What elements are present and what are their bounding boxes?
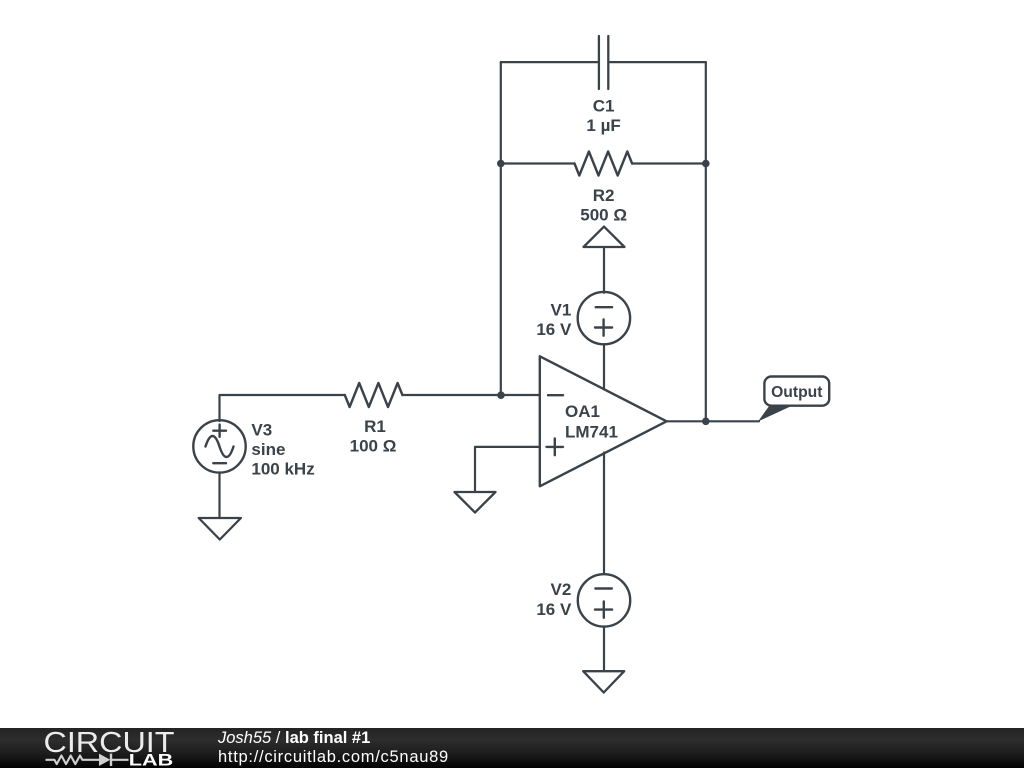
svg-text:C1: C1 [593, 97, 615, 116]
svg-text:LAB: LAB [129, 750, 173, 768]
svg-text:100 kHz: 100 kHz [251, 460, 314, 479]
op-amp OA1 [540, 356, 667, 486]
svg-text:16 V: 16 V [536, 600, 572, 619]
svg-text:R1: R1 [364, 417, 386, 436]
wire: C1 right lead [610, 61, 706, 63]
footer bar [0, 728, 1024, 768]
V3 minus sign [213, 462, 226, 464]
attribution line 1 [218, 729, 370, 748]
wire: V2 bottom to ground [603, 627, 605, 672]
op-amp minus input sign [548, 394, 563, 396]
svg-text:500 Ω: 500 Ω [580, 206, 627, 225]
V1 plus sign [595, 320, 612, 336]
Output flag tail [758, 406, 793, 422]
V1 minus sign [596, 306, 612, 308]
voltage source V1 [578, 292, 630, 344]
power flag arrow above V1 [584, 227, 625, 247]
svg-text:V2: V2 [551, 580, 572, 599]
node: output junction [702, 418, 710, 426]
V2 plus sign [595, 602, 612, 618]
ground (op-amp + input) [455, 492, 496, 513]
wire: C1 left lead [501, 61, 598, 63]
wire: V3 top to R1 left (input net) [220, 395, 345, 421]
resistor R1 [345, 383, 403, 407]
capacitor C1 [599, 36, 608, 89]
svg-text:16 V: 16 V [536, 320, 572, 339]
voltage source V2 [578, 574, 630, 626]
V3 plus sign [213, 425, 226, 437]
wire: op-amp output [667, 420, 759, 422]
wire: R2 left lead [501, 162, 575, 164]
wire: R2 right lead [632, 162, 706, 164]
wire: op-amp non-inverting input to ground [475, 447, 539, 492]
Output flag box [764, 377, 829, 406]
V3 sine symbol [206, 436, 234, 457]
logo resistor-diode line [46, 754, 129, 766]
svg-text:1 µF: 1 µF [586, 116, 620, 135]
svg-text:V1: V1 [551, 300, 572, 319]
wire: op-amp V- pin down to V2 [603, 453, 605, 575]
wire: feedback left column (inverting node up to C1) [500, 62, 502, 395]
V2 minus sign [595, 587, 611, 589]
svg-text:Output: Output [771, 384, 823, 401]
wire: arrow to V1 top [603, 247, 605, 293]
node: R2 right junction [702, 160, 710, 168]
node: inverting input junction [497, 391, 505, 399]
node: R2 left junction [497, 160, 505, 168]
resistor R2 [575, 152, 633, 176]
svg-text:LM741: LM741 [565, 423, 618, 442]
svg-text:R2: R2 [593, 186, 615, 205]
svg-text:100 Ω: 100 Ω [350, 437, 397, 456]
voltage source V3 (sine) [193, 420, 245, 472]
op-amp plus input sign [547, 439, 564, 456]
ground (V2) [583, 671, 624, 692]
wire: feedback right column (C1/R2 down to output node) [705, 62, 707, 421]
wire: R1 right to op-amp inverting input [402, 394, 538, 396]
svg-text:sine: sine [251, 440, 285, 459]
svg-text:V3: V3 [251, 421, 272, 440]
svg-text:OA1: OA1 [565, 402, 600, 421]
wire: V1 bottom to op-amp V+ pin [603, 344, 605, 390]
attribution line 2 [218, 748, 449, 767]
wire: V3 bottom to ground [218, 473, 220, 518]
ground (V3) [199, 518, 241, 540]
